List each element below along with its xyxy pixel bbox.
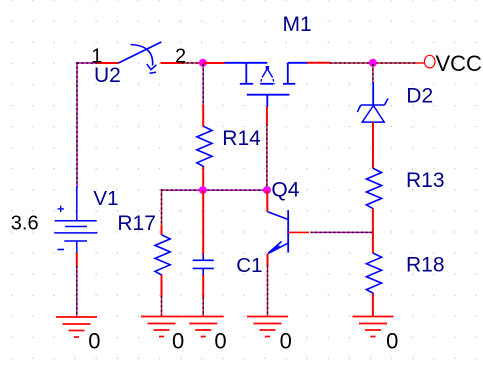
- svg-text:C1: C1: [236, 254, 262, 277]
- wire dashed Q4 emitter to ground: [267, 266, 269, 317]
- svg-text:R13: R13: [406, 169, 445, 192]
- wire dashed gate wire down to Q4 collector node: [266, 124, 268, 188]
- svg-text:VCC: VCC: [436, 51, 483, 76]
- mosfet M1: [225, 63, 309, 107]
- wire red D2 to R13: [372, 122, 374, 169]
- node junction dot R14/C1: [199, 186, 207, 194]
- resistor R14: [197, 126, 212, 167]
- battery V1: [54, 187, 97, 253]
- wire dashed left vertical from corner down to battery V1: [76, 62, 78, 188]
- svg-text:R14: R14: [222, 127, 261, 150]
- ground under C1: [183, 317, 224, 337]
- svg-text:R17: R17: [117, 212, 156, 235]
- svg-text:M1: M1: [283, 13, 312, 36]
- svg-text:D2: D2: [406, 84, 433, 107]
- resistor R18: [366, 253, 381, 294]
- wire red Q4 base to right: [289, 231, 310, 233]
- wire dashed horizontal R17-corner to Q4 node: [162, 189, 267, 191]
- wire red C1 bottom: [202, 275, 204, 298]
- wire red R17 bottom: [161, 275, 163, 296]
- svg-text:3.6: 3.6: [11, 213, 39, 235]
- wire red to R14 top: [202, 105, 204, 127]
- wire dashed VCC dot down to D2: [372, 64, 374, 83]
- svg-text:0: 0: [214, 329, 226, 354]
- wire dashed from top-left corner to switch left contact: [77, 62, 98, 64]
- wire red mosfet gate pin down: [266, 107, 268, 125]
- ground under R17: [141, 317, 183, 337]
- wire red Q4 emitter down: [267, 254, 269, 266]
- ground under R18: [353, 317, 394, 337]
- svg-text:0: 0: [172, 329, 184, 354]
- zener diode D2: [357, 82, 388, 122]
- wire dashed to VCC port: [330, 62, 425, 64]
- wire dashed node2 down: [202, 64, 204, 105]
- node junction dot Q4 collector: [263, 186, 271, 194]
- wire red R13 bottom to R18 top: [372, 209, 374, 253]
- wire dashed short segment left of node 2: [182, 62, 200, 64]
- wire dashed Q4 base to R13/R18 junction: [311, 231, 373, 233]
- wire dashed C1 to ground: [202, 298, 204, 317]
- ground under V1: [56, 317, 97, 337]
- svg-text:U2: U2: [94, 64, 121, 87]
- wire red node2 to mosfet left pin: [203, 62, 225, 64]
- wire red R18 bottom to ground: [372, 294, 374, 317]
- ground under Q4 emitter: [247, 317, 288, 337]
- resistor R17: [155, 235, 170, 275]
- capacitor C1: [193, 254, 214, 275]
- wire red battery bottom: [76, 253, 78, 267]
- switch U2: [119, 42, 162, 73]
- svg-text:0: 0: [88, 328, 100, 353]
- svg-text:Q4: Q4: [271, 179, 299, 202]
- wire red switch right lead to node 2: [161, 62, 184, 64]
- svg-text:0: 0: [386, 328, 398, 353]
- svg-text:R18: R18: [406, 254, 445, 277]
- VCC port circle: [424, 55, 435, 68]
- wire dashed battery to ground: [76, 266, 78, 317]
- svg-text:2: 2: [175, 45, 186, 67]
- svg-text:0: 0: [280, 329, 292, 354]
- resistor R13: [366, 168, 381, 209]
- svg-text:V1: V1: [93, 187, 118, 210]
- wire red R14 bottom to junction: [202, 167, 204, 190]
- wire red mosfet right pin: [307, 62, 330, 64]
- wire dashed corner down to R17: [161, 189, 163, 226]
- wire red junction down to C1: [202, 191, 204, 255]
- wire dashed R17 to ground: [161, 296, 163, 317]
- wire red switch left lead: [98, 62, 119, 64]
- transistor Q4: [267, 191, 288, 254]
- node VCC junction dot: [369, 59, 377, 67]
- node 2 junction dot: [199, 59, 207, 67]
- wire red to R17 top: [161, 225, 163, 235]
